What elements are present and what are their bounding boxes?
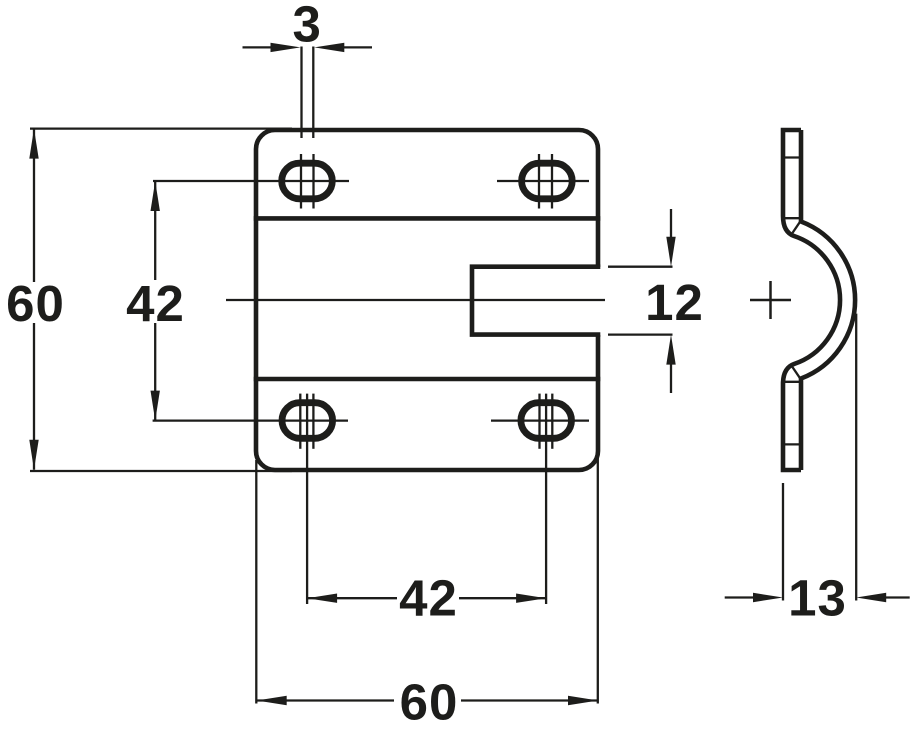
svg-text:12: 12 [645, 274, 704, 331]
svg-text:42: 42 [399, 569, 458, 626]
svg-text:3: 3 [293, 0, 322, 53]
svg-text:60: 60 [400, 674, 459, 730]
svg-text:60: 60 [6, 275, 65, 332]
svg-text:42: 42 [126, 275, 185, 332]
svg-text:13: 13 [788, 570, 847, 627]
